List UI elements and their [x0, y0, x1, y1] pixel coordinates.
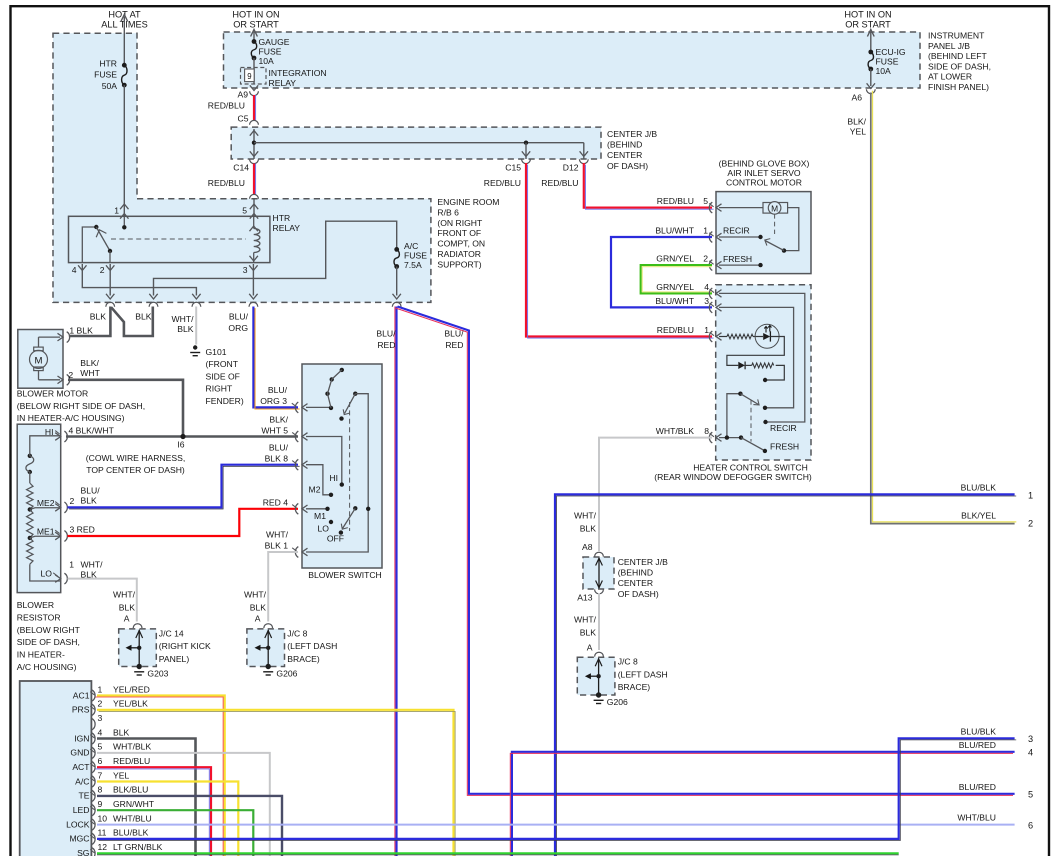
tick SG	[90, 850, 94, 853]
svg-text:LT GRN/BLK: LT GRN/BLK	[113, 842, 163, 852]
label BLK/WHT motor	[80, 358, 100, 378]
label RED 4	[263, 498, 289, 508]
svg-text:BLK/YEL: BLK/YEL	[961, 511, 996, 521]
HTR relay arm	[96, 227, 112, 253]
node IGN arrow right	[867, 30, 874, 53]
svg-text:A6: A6	[851, 93, 862, 103]
label BLK exit 2	[135, 312, 152, 322]
svg-text:SIDE OF: SIDE OF	[206, 371, 240, 381]
svg-text:5: 5	[703, 196, 708, 206]
label HOT IN ON OR START (left)	[232, 10, 279, 30]
svg-text:RED/BLU: RED/BLU	[541, 178, 578, 188]
label pin 3	[243, 265, 248, 275]
label WHT/BLK heater8	[656, 426, 694, 436]
svg-text:WHT/BLK: WHT/BLK	[656, 426, 694, 436]
label node 5	[1028, 790, 1033, 800]
relay pin2 exit chevrons	[106, 265, 114, 270]
svg-text:2: 2	[100, 265, 105, 275]
label BLU/WHT servo1	[655, 226, 694, 236]
label COWL WIRE HARNESS	[86, 453, 185, 475]
svg-text:ORG 3: ORG 3	[260, 396, 287, 406]
svg-text:BLK: BLK	[250, 603, 267, 613]
svg-text:4: 4	[98, 727, 103, 737]
switch HEATER CONTROL SWITCH box	[716, 285, 811, 460]
svg-text:CENTER: CENTER	[607, 150, 642, 160]
svg-text:BLU/: BLU/	[268, 385, 288, 395]
relay pin4 exit chevrons	[78, 265, 86, 270]
svg-text:BLU/BLK: BLU/BLK	[961, 483, 997, 493]
svg-text:RECIR: RECIR	[723, 226, 750, 236]
connector D12 cup	[579, 159, 588, 163]
svg-text:IN HEATER-: IN HEATER-	[17, 650, 65, 660]
svg-text:PRS: PRS	[72, 705, 90, 715]
svg-text:RED/BLU: RED/BLU	[657, 325, 694, 335]
label HOT AT ALL TIMES	[101, 10, 147, 30]
tick pin4 heater	[710, 289, 714, 292]
svg-text:BLK/: BLK/	[847, 117, 866, 127]
svg-text:BLU/: BLU/	[229, 312, 249, 322]
center J/B box C5-C14 (dashed)	[231, 127, 601, 159]
label BLOWER SWITCH	[308, 570, 382, 580]
svg-text:1: 1	[704, 325, 709, 335]
center J/B A8-A13 internal	[596, 558, 603, 588]
heater pin8 line	[719, 435, 743, 439]
tick ME1	[55, 530, 59, 533]
engine room entry cup C14	[250, 194, 259, 198]
connector A9 exit chevron	[250, 85, 258, 90]
svg-text:6: 6	[98, 756, 103, 766]
blower resistor box	[17, 424, 61, 592]
label BLU/WHT heater3	[655, 296, 694, 306]
connector A9 cup	[250, 91, 259, 95]
tick pin8 heater	[710, 433, 714, 436]
svg-text:CENTER: CENTER	[618, 578, 653, 588]
svg-text:ME2: ME2	[37, 498, 55, 508]
label pin 10 WHT/BLU	[98, 813, 152, 823]
node B+ arrow (hot at all times)	[121, 15, 128, 66]
servo dashed axis	[774, 214, 776, 234]
label G206 right	[607, 697, 628, 707]
svg-text:PANEL J/B: PANEL J/B	[928, 41, 970, 51]
blower motor box	[18, 330, 63, 389]
svg-text:CENTER J/B: CENTER J/B	[618, 557, 668, 567]
pin 9 A/C amplifier	[92, 805, 95, 816]
svg-text:BLU/WHT: BLU/WHT	[655, 296, 694, 306]
label INTEGRATION RELAY	[269, 68, 327, 88]
label node 6	[1028, 821, 1033, 831]
svg-text:BLK: BLK	[113, 727, 130, 737]
label A/C	[75, 776, 89, 786]
pin 1 blower motor	[58, 332, 70, 343]
label RED/BLU D12	[541, 178, 578, 188]
svg-text:C5: C5	[238, 114, 249, 124]
label pin 9 GRN/WHT	[98, 799, 155, 809]
blower switch dashed axis	[349, 402, 351, 531]
label pin 1 servo num	[703, 226, 708, 236]
pin 8 heater	[709, 432, 721, 443]
wire RED/BLU C14 to engine room	[254, 164, 256, 195]
pin 8 A/C amplifier	[92, 790, 95, 801]
ground G101	[190, 345, 200, 355]
label node 1	[1028, 490, 1033, 500]
label node 4	[1028, 748, 1033, 758]
svg-text:BLK: BLK	[580, 628, 597, 638]
svg-text:BLK: BLK	[177, 324, 194, 334]
svg-text:BLK: BLK	[81, 496, 98, 506]
svg-text:D12: D12	[563, 163, 579, 173]
svg-text:A: A	[124, 614, 130, 624]
blower switch pin8 line	[306, 465, 333, 497]
pin 11 A/C amplifier	[92, 833, 95, 844]
svg-text:BRACE): BRACE)	[287, 654, 320, 664]
svg-text:1: 1	[98, 684, 103, 694]
pin 4 blower switch	[295, 503, 307, 514]
svg-text:7: 7	[98, 770, 103, 780]
connector A13 cup	[595, 589, 604, 593]
wire WHT/BLK heater pin8 to A8	[599, 438, 712, 551]
motor M blower	[30, 337, 61, 380]
blower switch LO contact	[329, 520, 333, 524]
servo motor feed line	[719, 207, 763, 209]
svg-text:INTEGRATION: INTEGRATION	[269, 68, 327, 78]
label HTR FUSE 50A	[94, 59, 117, 91]
tick LED	[90, 806, 94, 809]
svg-text:1: 1	[1028, 490, 1033, 500]
svg-text:WHT/BLU: WHT/BLU	[957, 813, 996, 823]
junction J/C 8 box right	[577, 657, 615, 695]
svg-text:ACT: ACT	[72, 762, 90, 772]
svg-text:9: 9	[98, 799, 103, 809]
node I6	[180, 434, 185, 439]
pin ME2 blower resistor	[55, 502, 67, 513]
wire BLK/WHT resistor HI to blower switch pin 5	[66, 435, 298, 438]
label C14	[233, 163, 249, 173]
svg-text:PANEL): PANEL)	[159, 654, 190, 664]
heater lower arm	[741, 438, 767, 453]
svg-text:5: 5	[1028, 790, 1033, 800]
label LO	[41, 569, 53, 579]
svg-text:(BEHIND: (BEHIND	[607, 140, 642, 150]
wire BLU/BLK resistor to blower switch pin 8	[68, 465, 300, 509]
label SG	[77, 848, 90, 858]
label A13	[577, 593, 593, 603]
node C15 branch	[524, 141, 528, 145]
wire relay pin4 to WHT/BLK exit	[82, 264, 200, 299]
wire C15 drop	[522, 143, 530, 159]
wire BLK exit1 to blower motor pin 1	[69, 307, 111, 337]
relay pin3 exit chevrons	[249, 265, 257, 270]
wire RED/BLU D12 to servo pin 5	[584, 163, 714, 209]
svg-text:3: 3	[243, 265, 248, 275]
HTR relay contact common	[82, 225, 98, 263]
svg-text:BLU/BLK: BLU/BLK	[113, 828, 149, 838]
node IGN arrow left	[251, 30, 258, 42]
label FRESH heater	[770, 442, 799, 452]
tick pin5 servo	[709, 203, 713, 206]
svg-text:WHT/: WHT/	[81, 560, 104, 570]
svg-text:(FRONT: (FRONT	[206, 359, 239, 369]
tick PRS	[90, 706, 94, 709]
svg-text:2: 2	[68, 370, 73, 380]
label BLU/RED out5	[959, 782, 996, 792]
label BLU/BLK 8	[265, 443, 289, 464]
svg-text:WHT/BLK: WHT/BLK	[113, 742, 151, 752]
connector A8 cup	[595, 552, 604, 556]
servo motor right link	[782, 208, 799, 253]
label 3 RED	[70, 525, 95, 535]
label BLU/RED left	[376, 329, 396, 351]
label PRS	[72, 705, 90, 715]
svg-text:ENGINE ROOM: ENGINE ROOM	[437, 197, 499, 207]
wire relay pin3 to BLU/ORG exit	[249, 264, 257, 299]
connector C15 cup	[522, 159, 531, 163]
wire WHT/BLK resistor LO to J/C 14	[68, 579, 137, 622]
wire BLU/BLK output 1	[555, 494, 1016, 857]
svg-text:RED/BLU: RED/BLU	[113, 756, 150, 766]
tick pin8 sw	[292, 461, 296, 464]
connector C5 cup	[250, 120, 259, 124]
label BEHIND GLOVE BOX AIR INLET SERVO	[719, 159, 810, 188]
svg-text:RED/BLU: RED/BLU	[208, 101, 245, 111]
svg-text:WHT/: WHT/	[574, 511, 597, 521]
pin LO blower resistor	[55, 573, 67, 584]
fuse GAUGE FUSE 10A	[251, 39, 256, 60]
wire BLU/ORG to blower switch pin 3	[253, 307, 299, 410]
label AC1	[73, 690, 90, 700]
junction center J/B A8-A13 box	[583, 557, 614, 589]
wire BLU/RED straight drop	[395, 307, 397, 857]
wire WHT/BLU pin10 to output 6	[97, 824, 1015, 826]
wire gauge fuse to integration relay	[253, 58, 255, 84]
svg-text:C15: C15	[505, 163, 521, 173]
pin 2 A/C amplifier	[92, 704, 95, 715]
svg-text:LOCK: LOCK	[66, 819, 90, 829]
svg-text:ORG: ORG	[228, 323, 248, 333]
label RECIR servo	[723, 226, 750, 236]
svg-text:OF DASH): OF DASH)	[618, 589, 659, 599]
svg-text:10A: 10A	[876, 66, 892, 76]
svg-text:IGN: IGN	[74, 733, 89, 743]
svg-text:AIR INLET SERVO: AIR INLET SERVO	[727, 168, 801, 178]
svg-text:RED/BLU: RED/BLU	[208, 178, 245, 188]
svg-text:BLU/RED: BLU/RED	[959, 740, 996, 750]
svg-text:A: A	[587, 643, 593, 653]
label C5	[238, 114, 249, 124]
label pin 7 YEL	[98, 770, 130, 780]
svg-text:YEL/RED: YEL/RED	[113, 684, 150, 694]
wire BLU/RED output 4	[510, 752, 1014, 858]
heater dashed axis	[750, 400, 752, 442]
label pin 5 servo num	[703, 196, 708, 206]
J/C 8 left internal	[255, 630, 272, 669]
svg-text:A/C: A/C	[75, 776, 89, 786]
svg-text:SG: SG	[77, 848, 90, 856]
svg-text:J/C 8: J/C 8	[287, 628, 307, 638]
svg-text:COMPT, ON: COMPT, ON	[437, 239, 485, 249]
svg-text:A8: A8	[582, 542, 593, 552]
label ME1	[37, 527, 55, 537]
node center J/B junction	[252, 141, 256, 145]
label A/C FUSE 7.5A	[404, 241, 427, 270]
svg-text:(ON RIGHT: (ON RIGHT	[437, 218, 483, 228]
tick pin1 heater	[710, 332, 714, 335]
svg-text:YEL/BLK: YEL/BLK	[113, 699, 148, 709]
svg-text:RIGHT: RIGHT	[206, 384, 233, 394]
blower switch right rail	[306, 394, 370, 552]
tick IGN	[90, 735, 94, 738]
label M1	[314, 511, 326, 521]
svg-text:M2: M2	[309, 485, 321, 495]
svg-text:5: 5	[98, 742, 103, 752]
connector cup BLU/RED exit	[392, 302, 401, 306]
wire D12 drop	[580, 143, 588, 159]
label ECU-IG FUSE 10A	[876, 47, 906, 76]
svg-text:2: 2	[98, 699, 103, 709]
pin 3 blower switch	[295, 402, 307, 413]
svg-text:8: 8	[704, 426, 709, 436]
label WHT/BLK A8	[574, 511, 597, 534]
wire WHT/BLK pin5	[97, 753, 270, 856]
label BLU/BLK out3	[961, 726, 997, 736]
label RED/BLU servo5	[657, 196, 694, 206]
svg-text:2: 2	[70, 496, 75, 506]
svg-text:WHT 5: WHT 5	[261, 426, 288, 436]
svg-text:3: 3	[98, 713, 103, 723]
label pin 4 BLK	[98, 727, 130, 737]
label WHT/BLK A13	[574, 615, 597, 638]
fuse ECU-IG FUSE 10A	[868, 50, 873, 72]
svg-text:4: 4	[72, 265, 77, 275]
HTR relay dashed link	[111, 238, 246, 240]
svg-text:G206: G206	[607, 697, 628, 707]
wire LT GRN/BLK pin12	[97, 853, 899, 855]
label A JC14	[124, 614, 130, 624]
svg-text:(BEHIND: (BEHIND	[618, 568, 653, 578]
label GRN/YEL servo2	[656, 254, 694, 264]
label HOT IN ON OR START (right)	[844, 10, 891, 30]
label HI	[45, 427, 54, 437]
label BLK/YEL out2	[961, 511, 996, 521]
svg-text:6: 6	[1028, 821, 1033, 831]
label J/C 8 (LEFT DASH BRACE) left	[287, 628, 337, 664]
connector A6 cup	[866, 89, 875, 93]
svg-text:HI: HI	[329, 473, 338, 483]
svg-text:I6: I6	[177, 440, 184, 450]
wire RED/BLU A9-C5	[254, 95, 256, 121]
label J/C 8 (LEFT DASH BRACE) right	[618, 657, 668, 693]
wire RED/BLU pin6	[95, 767, 211, 858]
wire HTR fuse to relay pin 1	[123, 85, 125, 216]
tick HI	[55, 431, 59, 434]
label pin 12 LT GRN/BLK	[98, 842, 163, 852]
blower switch pin4 line	[306, 507, 330, 511]
svg-text:BLOWER SWITCH: BLOWER SWITCH	[308, 570, 382, 580]
svg-text:GRN/YEL: GRN/YEL	[656, 254, 694, 264]
svg-text:GRN/YEL: GRN/YEL	[656, 282, 694, 292]
blower switch pin3 chain	[306, 368, 344, 410]
engine room R/B 6 + HTR fuse region (dashed L-shape)	[53, 33, 431, 302]
svg-text:BLK: BLK	[580, 524, 597, 534]
label BLU/ORG exit	[228, 312, 248, 334]
svg-text:AT LOWER: AT LOWER	[928, 72, 972, 82]
label pin 4	[72, 265, 77, 275]
relay HTR RELAY box	[69, 216, 270, 262]
svg-text:10: 10	[98, 813, 108, 823]
label RED/BLU C15	[484, 178, 521, 188]
wire A/C fuse to exit	[393, 267, 401, 300]
svg-text:SIDE OF DASH,: SIDE OF DASH,	[928, 61, 991, 71]
label BLU/BLK resistor	[81, 486, 101, 506]
instrument panel J/B box (dashed)	[224, 32, 921, 88]
label BLU/ORG 3	[260, 385, 287, 406]
svg-text:1: 1	[703, 226, 708, 236]
pin 1 servo	[709, 232, 721, 243]
svg-text:CONTROL MOTOR: CONTROL MOTOR	[726, 178, 802, 188]
svg-text:RED/BLU: RED/BLU	[657, 196, 694, 206]
svg-text:IN HEATER-A/C HOUSING): IN HEATER-A/C HOUSING)	[17, 413, 125, 423]
svg-text:(REAR WINDOW DEFOGGER SWITCH): (REAR WINDOW DEFOGGER SWITCH)	[654, 472, 812, 482]
wire BLK/YEL A6 to output 2	[871, 91, 1017, 524]
label RED/BLU C14	[208, 178, 245, 188]
label LOCK	[66, 819, 90, 829]
label MGC	[69, 834, 89, 844]
svg-text:WHT: WHT	[80, 368, 100, 378]
tick ACT	[90, 763, 94, 766]
wire YEL pin7	[97, 782, 238, 857]
label pin 2 YEL/BLK	[98, 699, 149, 709]
wire YEL/RED pin1	[96, 696, 225, 858]
svg-text:MGC: MGC	[69, 834, 89, 844]
tick pin5 sw	[292, 432, 296, 435]
label ME2	[37, 498, 55, 508]
label pin 1 HTR relay	[114, 206, 119, 216]
label M2	[309, 485, 321, 495]
servo FRESH contact line	[719, 263, 763, 267]
label GRN/YEL heater4	[656, 282, 694, 292]
svg-text:3: 3	[704, 296, 709, 306]
label BLU/RED right	[444, 329, 464, 351]
svg-text:3 RED: 3 RED	[70, 525, 95, 535]
svg-text:A9: A9	[237, 90, 248, 100]
svg-text:RED 4: RED 4	[263, 498, 289, 508]
svg-text:RELAY: RELAY	[269, 78, 297, 88]
svg-text:(BELOW RIGHT: (BELOW RIGHT	[17, 625, 81, 635]
fuse HTR FUSE 50A	[122, 63, 127, 88]
svg-text:RED: RED	[377, 340, 395, 350]
svg-text:2: 2	[1028, 519, 1033, 529]
wire GRN/YEL servo to heater pin4	[641, 265, 712, 293]
svg-text:R/B 6: R/B 6	[437, 207, 459, 217]
svg-text:BLU/: BLU/	[376, 329, 396, 339]
label J/C 14 (RIGHT KICK PANEL)	[159, 628, 211, 664]
svg-text:1 BLK: 1 BLK	[69, 325, 93, 335]
blower switch lower arm	[339, 506, 358, 535]
wire WHT/BLK blower switch pin1 to J/C 8	[268, 552, 298, 622]
label WHT/BLK exit	[172, 314, 195, 334]
svg-text:1: 1	[114, 206, 119, 216]
svg-text:(LEFT DASH: (LEFT DASH	[618, 669, 668, 679]
svg-text:12: 12	[98, 842, 108, 852]
label pin 11 BLU/BLK	[98, 828, 149, 838]
label G203	[147, 669, 168, 679]
ground G206 right	[594, 700, 604, 703]
wire WHT/BLK A13 to J/C 8	[598, 593, 600, 650]
tick A/C	[90, 778, 94, 781]
label A9	[237, 90, 248, 100]
svg-text:LO: LO	[41, 569, 53, 579]
label RED/BLU A9	[208, 101, 245, 111]
pin 8 blower switch	[295, 459, 307, 470]
